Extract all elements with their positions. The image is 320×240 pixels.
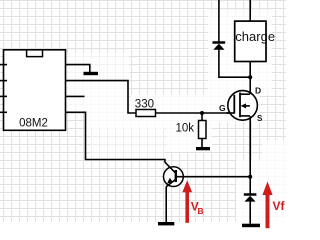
MOSFET Q2: [227, 91, 258, 121]
IC left pin 1: [0, 64, 7, 66]
resistor R1 330: [136, 110, 156, 117]
wire J2 to diode D2: [249, 177, 251, 194]
svg-text:330: 330: [135, 99, 154, 111]
IC left pin 3: [0, 95, 7, 97]
svg-text:Vf: Vf: [273, 199, 286, 213]
wire charge box to drain: [249, 62, 251, 95]
diode D1: [213, 43, 226, 50]
wire IC pin2 to resistor 330: [66, 81, 137, 113]
node J2: [248, 175, 252, 179]
wire R1 to MOSFET gate: [156, 112, 235, 114]
transistor Q1: [164, 162, 184, 187]
svg-text:D: D: [255, 86, 261, 96]
wire IC pin3 stub: [66, 95, 85, 97]
ground G4: [242, 224, 260, 228]
svg-text:B: B: [198, 206, 204, 216]
svg-text:08M2: 08M2: [19, 118, 48, 130]
IC left pin 2: [0, 80, 7, 82]
diode D2: [244, 195, 257, 202]
wire source to node J2: [249, 116, 251, 177]
IC U1 08M2 body: [4, 50, 66, 131]
wire IC pin1 to ground: [66, 65, 90, 72]
arrow VB: [182, 180, 192, 223]
svg-text:S: S: [257, 114, 263, 123]
svg-text:charge: charge: [235, 29, 275, 44]
svg-text:10k: 10k: [176, 123, 195, 135]
node J1: [248, 75, 252, 79]
svg-text:G: G: [219, 103, 226, 113]
ground G2: [196, 147, 210, 150]
charge box: [235, 21, 266, 61]
IC left pin 4: [0, 111, 7, 113]
wire junction to R2: [201, 113, 203, 121]
wire Q1 emitter to ground: [165, 187, 167, 222]
wire D2 to ground: [249, 202, 251, 224]
wire IC pin4 to transistor: [66, 112, 165, 162]
wire D1 to node J1: [219, 50, 250, 78]
arrow Vf: [262, 182, 272, 229]
wire top to diode D1: [218, 0, 220, 41]
wire R2 to ground: [201, 139, 203, 148]
node junction at 10k: [200, 111, 204, 115]
wire top to charge box: [249, 0, 251, 21]
ground G3: [158, 222, 174, 225]
ground G1: [84, 72, 99, 75]
resistor R2 10k: [199, 121, 207, 139]
wire Q1 base to node: [177, 176, 250, 178]
